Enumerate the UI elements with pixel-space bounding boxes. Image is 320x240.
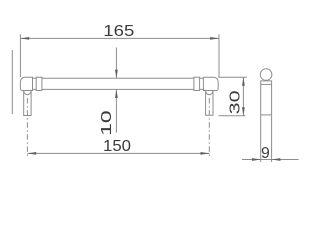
dim 10 upper arrow (down) <box>115 70 118 79</box>
dim 165 left arrow <box>20 37 29 40</box>
svg-text:30: 30 <box>226 90 243 114</box>
handle right end cap <box>203 77 218 90</box>
svg-text:10: 10 <box>98 110 115 136</box>
right leg centerline <box>208 98 210 156</box>
dim 30 bottom arrow (down) <box>242 107 245 116</box>
dim 9 left arrow (outside, pointing right) <box>252 158 261 161</box>
dim 150 dimension line <box>27 152 209 154</box>
dim 9 left extension line <box>260 116 262 163</box>
dim 30 top arrow (up) <box>242 77 245 86</box>
svg-text:165: 165 <box>103 23 134 40</box>
dim 9 right arrow (outside, pointing left) <box>272 158 281 161</box>
dim 10 lower pointer line <box>115 90 117 133</box>
dim 10 upper pointer line <box>115 48 117 78</box>
svg-text:9: 9 <box>261 145 270 162</box>
handle bar top line <box>42 77 194 79</box>
right leg <box>206 91 213 116</box>
dim 165 left extension line <box>19 34 21 77</box>
side view post <box>261 81 272 115</box>
dim 10 lower arrow (up) <box>115 89 118 98</box>
side view ball <box>260 69 272 81</box>
dim 9 dimension line <box>242 159 299 161</box>
dim 9 right extension line <box>271 116 273 163</box>
faint border line <box>11 50 13 114</box>
handle right neck lines <box>200 78 204 89</box>
dim 150 right arrow <box>201 152 210 155</box>
handle left end cap <box>20 77 32 90</box>
handle right ring <box>194 77 200 90</box>
dim 165 dimension line <box>20 37 219 39</box>
handle bar bottom line <box>42 88 194 90</box>
dim 30 top extension line <box>218 76 246 78</box>
handle left ring <box>36 77 42 90</box>
dim 30 dimension line <box>242 77 244 116</box>
dim 30 bottom extension line <box>218 115 245 117</box>
dim 165 right extension line <box>218 34 220 77</box>
svg-text:150: 150 <box>103 138 131 155</box>
side view collar line <box>261 83 272 85</box>
dim 165 right arrow <box>210 37 219 40</box>
dim 150 left arrow <box>27 152 36 155</box>
left leg <box>24 91 31 116</box>
left leg centerline <box>26 98 28 156</box>
right leg dome <box>206 91 213 95</box>
left leg dome <box>24 91 31 95</box>
handle left neck lines <box>33 78 37 89</box>
